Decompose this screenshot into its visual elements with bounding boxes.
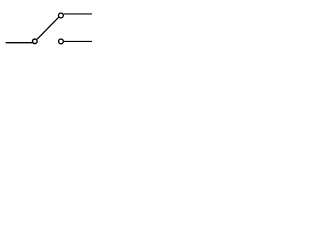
wire: lower throw lead, right bbox=[64, 40, 92, 42]
node: pole contact circle bbox=[33, 39, 38, 44]
wire: upper throw lead, right bbox=[64, 13, 92, 15]
wire: common (pole) lead, left bbox=[6, 42, 33, 44]
node: upper throw contact circle bbox=[59, 13, 64, 18]
wire: switch arm (pole to upper throw) bbox=[37, 17, 59, 39]
SPDT switch SW1 schematic bbox=[0, 0, 99, 63]
node: lower throw contact circle bbox=[59, 39, 64, 44]
